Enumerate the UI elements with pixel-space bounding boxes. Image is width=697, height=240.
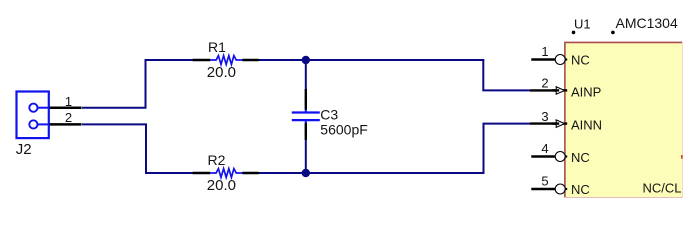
svg-text:2: 2 xyxy=(541,76,548,91)
svg-text:1: 1 xyxy=(65,94,72,109)
svg-text:U1: U1 xyxy=(574,16,591,31)
svg-text:NC: NC xyxy=(571,53,590,68)
svg-text:NC: NC xyxy=(571,182,590,197)
svg-text:R1: R1 xyxy=(208,39,226,55)
svg-text:20.0: 20.0 xyxy=(207,177,236,194)
svg-text:J2: J2 xyxy=(16,141,32,158)
svg-text:20.0: 20.0 xyxy=(207,64,236,81)
svg-text:C3: C3 xyxy=(320,107,338,123)
svg-text:AINN: AINN xyxy=(571,117,602,132)
svg-text:AINP: AINP xyxy=(571,85,601,100)
svg-text:NC/CLKIN: NC/CLKIN xyxy=(643,181,697,196)
svg-text:1: 1 xyxy=(541,44,548,59)
svg-text:3: 3 xyxy=(541,109,548,124)
svg-text:5600pF: 5600pF xyxy=(320,122,367,138)
svg-text:NC: NC xyxy=(571,150,590,165)
svg-text:R2: R2 xyxy=(208,152,226,168)
svg-text:AMC1304: AMC1304 xyxy=(616,15,678,31)
svg-text:4: 4 xyxy=(541,141,548,156)
svg-text:5: 5 xyxy=(541,174,548,189)
svg-text:2: 2 xyxy=(65,110,72,125)
